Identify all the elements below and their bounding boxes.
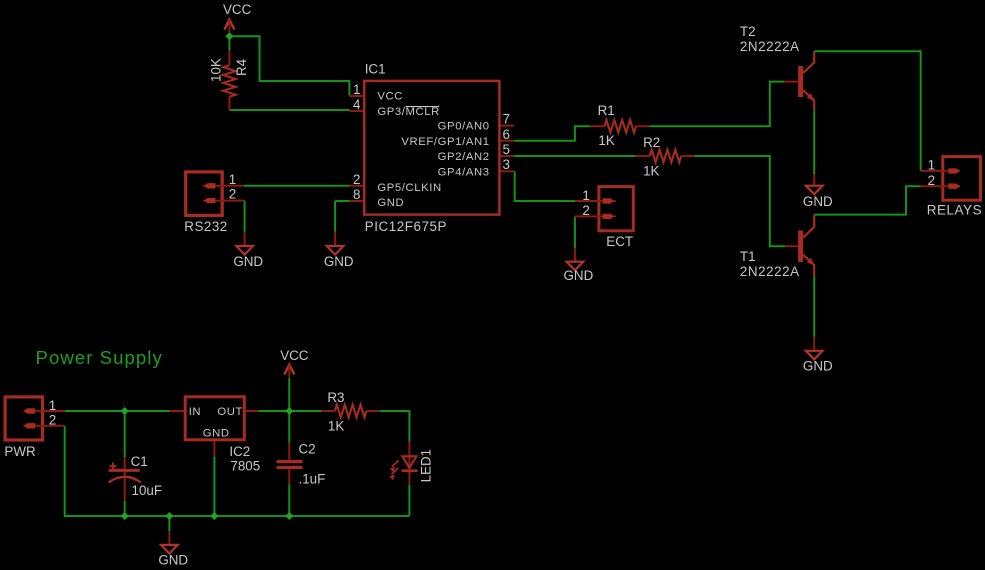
svg-text:6: 6 xyxy=(503,127,510,142)
svg-text:GND: GND xyxy=(324,254,354,269)
svg-text:LED1: LED1 xyxy=(418,449,433,483)
svg-text:R1: R1 xyxy=(598,103,615,118)
svg-text:4: 4 xyxy=(353,97,361,112)
svg-text:8: 8 xyxy=(353,187,360,202)
svg-text:VREF/GP1/AN1: VREF/GP1/AN1 xyxy=(401,136,489,148)
svg-text:10uF: 10uF xyxy=(132,483,163,498)
svg-text:2: 2 xyxy=(582,203,589,218)
svg-text:5: 5 xyxy=(503,142,510,157)
svg-text:1: 1 xyxy=(229,172,236,187)
svg-text:R2: R2 xyxy=(643,135,660,150)
svg-text:2N2222A: 2N2222A xyxy=(740,39,800,54)
svg-text:2N2222A: 2N2222A xyxy=(740,264,800,279)
svg-text:RS232: RS232 xyxy=(184,219,227,234)
svg-text:C2: C2 xyxy=(299,442,316,457)
svg-text:VCC: VCC xyxy=(223,2,252,17)
svg-text:IC2: IC2 xyxy=(229,444,250,459)
svg-text:OUT: OUT xyxy=(217,406,243,418)
svg-text:IC1: IC1 xyxy=(365,62,386,77)
svg-text:1K: 1K xyxy=(328,419,344,434)
svg-text:1K: 1K xyxy=(643,164,659,179)
svg-text:T1: T1 xyxy=(740,249,756,264)
svg-text:GP5/CLKIN: GP5/CLKIN xyxy=(377,182,441,194)
svg-text:7: 7 xyxy=(503,112,510,127)
svg-text:1: 1 xyxy=(353,82,360,97)
svg-text:R3: R3 xyxy=(327,390,344,405)
svg-text:C1: C1 xyxy=(131,454,148,469)
svg-text:PWR: PWR xyxy=(4,444,36,459)
svg-text:Power Supply: Power Supply xyxy=(36,347,163,368)
svg-text:10K: 10K xyxy=(209,58,224,82)
svg-text:GP3/MCLR: GP3/MCLR xyxy=(377,106,440,118)
svg-text:7805: 7805 xyxy=(230,458,260,473)
svg-text:1K: 1K xyxy=(598,133,614,148)
svg-text:2: 2 xyxy=(928,173,935,188)
svg-text:GP0/AN0: GP0/AN0 xyxy=(438,121,490,133)
svg-text:GP4/AN3: GP4/AN3 xyxy=(438,166,490,178)
svg-text:T2: T2 xyxy=(740,24,756,39)
svg-text:ECT: ECT xyxy=(606,234,633,249)
svg-text:GND: GND xyxy=(803,194,833,209)
svg-text:GND: GND xyxy=(377,197,404,209)
svg-text:1: 1 xyxy=(928,158,935,173)
svg-text:RELAYS: RELAYS xyxy=(927,202,982,217)
svg-text:GND: GND xyxy=(803,359,833,374)
svg-text:VCC: VCC xyxy=(377,90,403,102)
svg-text:GND: GND xyxy=(158,553,188,568)
svg-text:1: 1 xyxy=(582,188,589,203)
svg-text:GP2/AN2: GP2/AN2 xyxy=(438,151,490,163)
svg-text:IN: IN xyxy=(189,406,202,418)
svg-text:R4: R4 xyxy=(234,58,249,76)
svg-text:2: 2 xyxy=(353,172,360,187)
svg-text:2: 2 xyxy=(229,187,236,202)
svg-text:VCC: VCC xyxy=(280,348,309,363)
svg-text:.1uF: .1uF xyxy=(299,471,326,486)
svg-text:PIC12F675P: PIC12F675P xyxy=(365,219,447,234)
svg-text:GND: GND xyxy=(233,254,263,269)
svg-text:3: 3 xyxy=(503,157,510,172)
svg-text:2: 2 xyxy=(49,413,56,428)
svg-text:GND: GND xyxy=(564,268,594,283)
svg-text:GND: GND xyxy=(203,428,230,440)
svg-text:1: 1 xyxy=(49,398,56,413)
